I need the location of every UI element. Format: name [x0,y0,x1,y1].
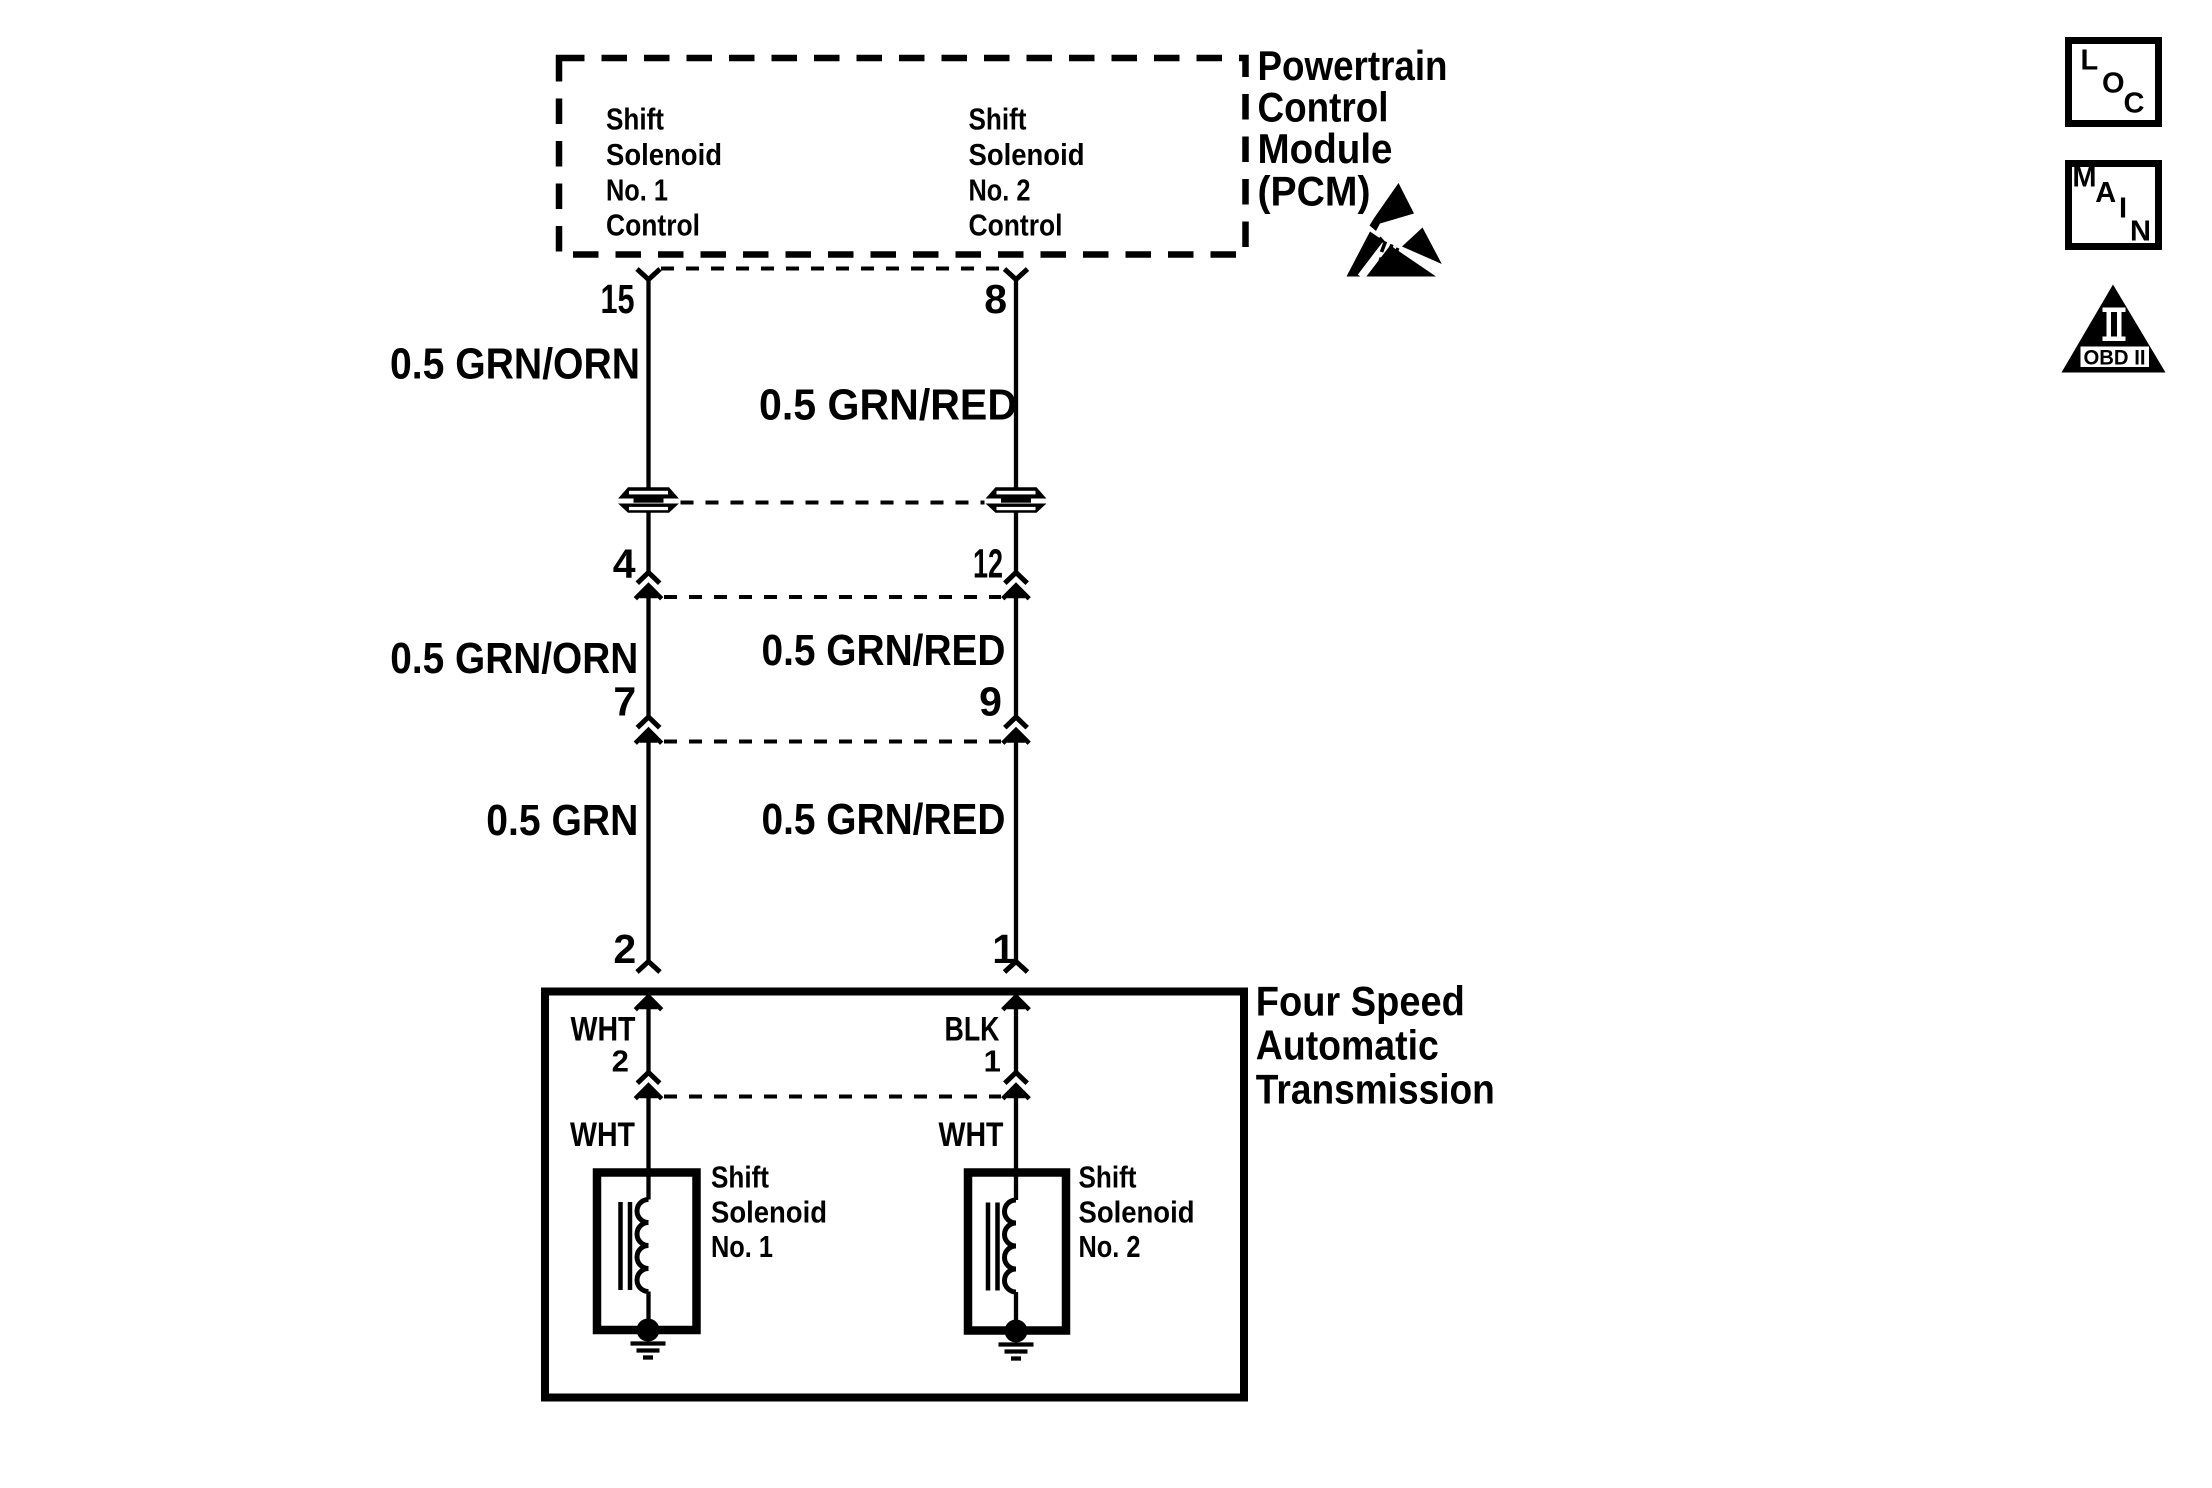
svg-text:Shift: Shift [711,1160,769,1195]
inner inline connector right [1003,1073,1029,1099]
PCM connector dashed line [661,267,1003,271]
svg-text:0.5 GRN/ORN: 0.5 GRN/ORN [390,340,640,389]
svg-text:Solenoid: Solenoid [711,1194,827,1229]
shift solenoid No.2 box [968,1173,1066,1331]
svg-text:9: 9 [979,679,1002,725]
inline connector pin 9 [1003,717,1029,743]
connector dashed line [664,595,1001,599]
transmission pin 2 fork terminal [637,962,660,973]
svg-text:Powertrain: Powertrain [1258,42,1448,89]
svg-text:Shift: Shift [1079,1160,1137,1195]
wire terminal to inner connector (left) [646,1002,650,1073]
svg-text:4: 4 [613,541,636,587]
svg-text:No. 2: No. 2 [1079,1229,1141,1264]
svg-text:C: C [2124,88,2145,120]
svg-text:0.5 GRN/RED: 0.5 GRN/RED [762,795,1006,844]
svg-text:O: O [2102,68,2125,100]
PCM module box (dashed) [559,58,1246,255]
svg-text:No. 1: No. 1 [711,1229,773,1264]
grommet left [618,487,679,513]
svg-text:I: I [2119,193,2127,225]
svg-text:1: 1 [984,1043,1001,1078]
svg-text:N: N [2130,216,2151,248]
svg-text:Solenoid: Solenoid [1079,1194,1195,1229]
svg-text:Shift: Shift [969,102,1027,137]
svg-text:0.5 GRN/ORN: 0.5 GRN/ORN [390,634,638,683]
wire terminal to inner connector (right) [1014,1002,1018,1073]
ground solenoid 2 [999,1320,1034,1359]
svg-text:OBD II: OBD II [2084,347,2146,370]
svg-text:Automatic: Automatic [1256,1021,1439,1068]
wire PCM-8 to grommet [1014,280,1018,488]
MAIN reference box [2069,162,2159,248]
svg-text:M: M [2072,162,2096,194]
svg-text:Solenoid: Solenoid [606,137,722,172]
svg-text:(PCM): (PCM) [1258,167,1371,214]
svg-text:15: 15 [601,276,635,322]
svg-text:Control: Control [969,207,1063,242]
pin 1 male terminal inside box [1003,996,1029,1010]
svg-text:Module: Module [1258,125,1393,172]
svg-text:2: 2 [613,926,636,972]
svg-text:L: L [2081,45,2099,77]
svg-text:Transmission: Transmission [1256,1065,1495,1112]
inline connector pin 12 [1003,573,1029,599]
svg-text:8: 8 [984,276,1007,322]
grommet right [986,487,1047,513]
svg-text:Shift: Shift [606,102,664,137]
svg-text:No. 1: No. 1 [606,172,668,207]
svg-text:Solenoid: Solenoid [969,137,1085,172]
shift solenoid No.1 box [597,1173,697,1331]
svg-text:2: 2 [612,1043,629,1078]
solenoid 1 coil [621,1200,649,1292]
connector dashed line [664,740,1001,744]
wire connector7 to transmission pin 2 [646,743,650,962]
svg-text:7: 7 [613,679,636,725]
svg-text:WHT: WHT [939,1116,1004,1154]
solenoid 2 coil [988,1200,1016,1292]
svg-text:12: 12 [973,541,1003,587]
wire connector4 to connector7 [646,598,650,717]
inline connector pin 7 [635,717,661,743]
PCM pin 8 fork terminal [1005,269,1028,280]
svg-text:No. 2: No. 2 [969,172,1031,207]
wire grommet to connector C2 pin 4 [646,513,650,573]
transmission pin 1 fork terminal [1005,962,1028,973]
inner inline connector left [635,1073,661,1099]
inner connector dashed line [664,1095,1001,1099]
svg-text:WHT: WHT [570,1116,635,1154]
Four Speed Automatic Transmission box [545,992,1244,1398]
wire coil to ground dot 2 [1014,1292,1018,1331]
svg-text:0.5 GRN/RED: 0.5 GRN/RED [759,381,1017,430]
ESD sensitivity symbol [1347,183,1450,277]
ground solenoid 1 [631,1319,666,1358]
grommet dashed line [681,501,985,505]
svg-text:0.5 GRN/RED: 0.5 GRN/RED [762,626,1006,675]
svg-text:Four Speed: Four Speed [1256,978,1465,1025]
wire connector9 to transmission pin 1 [1014,743,1018,962]
svg-text:Control: Control [1258,84,1389,131]
inline connector pin 4 [635,573,661,599]
svg-text:Control: Control [606,207,700,242]
svg-text:A: A [2095,177,2116,209]
LOC reference box [2069,41,2159,124]
PCM pin 15 fork terminal [637,269,660,280]
wire connector12 to connector9 [1014,598,1018,717]
pin 2 male terminal inside box [635,996,661,1010]
wire PCM-15 to grommet [646,280,650,488]
wire inner connector to solenoid 2 [1014,1098,1018,1200]
wire grommet to connector C2 pin 12 [1014,513,1018,573]
svg-text:0.5 GRN: 0.5 GRN [486,796,638,845]
wire coil to ground dot 1 [646,1292,650,1331]
OBD II triangle badge [2062,285,2166,373]
wire inner connector to solenoid 1 [646,1098,650,1200]
